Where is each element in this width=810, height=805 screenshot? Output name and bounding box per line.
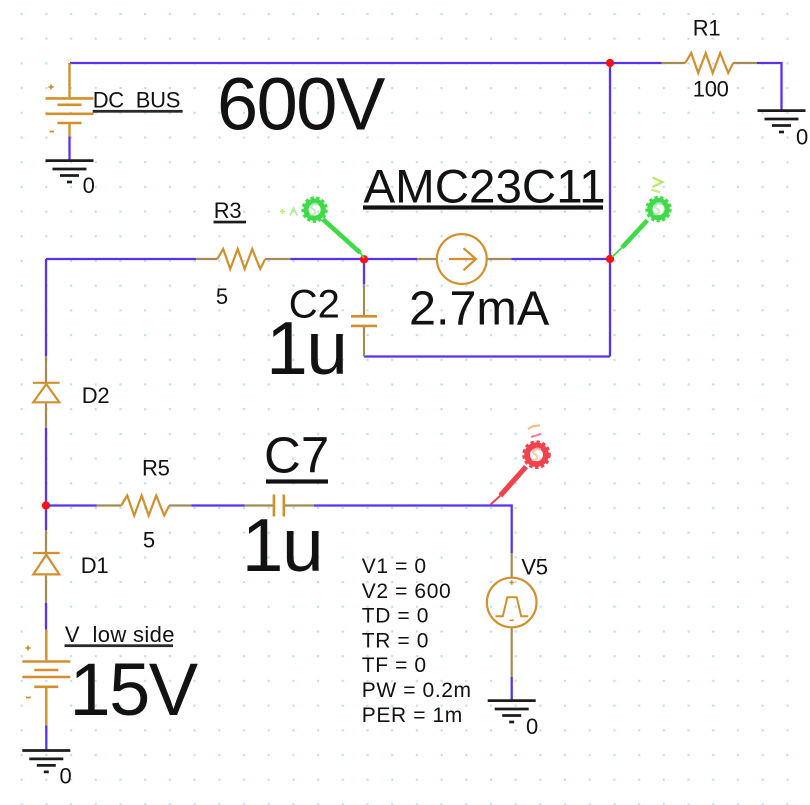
- wire V_low_side to ground: [45, 726, 47, 751]
- svg-text:R1: R1: [693, 15, 721, 40]
- svg-text:DC_BUS: DC_BUS: [93, 88, 180, 113]
- battery source V_low_side stems: [45, 630, 47, 726]
- resistor R1 body: [685, 53, 733, 73]
- battery source V DC_BUS plates: [46, 98, 94, 123]
- capacitor C7 pins: [245, 504, 315, 506]
- svg-text:5: 5: [143, 527, 155, 552]
- resistor R1 pins: [662, 62, 757, 64]
- svg-text:0: 0: [83, 173, 95, 198]
- voltage probe marker green 2: [612, 178, 670, 257]
- diode D2 pins: [45, 356, 47, 428]
- pulse source V5 plus mark: [510, 580, 514, 584]
- battery V_low_side minus mark: [26, 697, 31, 699]
- wire D1 to V_low_side: [45, 603, 47, 630]
- svg-text:V2 = 600: V2 = 600: [362, 580, 451, 603]
- svg-text:TR = 0: TR = 0: [362, 629, 429, 652]
- ground 0 under V_low_side: [22, 751, 70, 772]
- voltage probe marker green 1: [280, 198, 364, 258]
- resistor R5 body: [121, 496, 169, 516]
- svg-text:R5: R5: [142, 456, 170, 481]
- resistor R5 pins: [97, 504, 192, 506]
- junction dot at mid node: [606, 255, 614, 263]
- pulse source V5 waveform glyph: [496, 597, 529, 616]
- svg-text:15V: 15V: [70, 648, 199, 731]
- pulse source V5 minus mark: [510, 619, 514, 621]
- svg-text:1u: 1u: [242, 503, 322, 587]
- junction dot at top node: [606, 59, 614, 67]
- svg-text:V1 = 0: V1 = 0: [362, 555, 427, 578]
- diode D1 pins: [45, 530, 47, 603]
- pulse source V5 body: [487, 578, 537, 628]
- wire row3 junction to R5: [46, 504, 97, 506]
- svg-text:0: 0: [796, 125, 808, 150]
- wire D2 to D1 junction: [45, 428, 47, 530]
- ground 0 under V5: [488, 701, 536, 722]
- pulse source V5 pins: [511, 553, 513, 677]
- battery source V DC_BUS stems: [68, 63, 70, 137]
- diode D1 body: [33, 553, 60, 574]
- current source I1 pins: [417, 258, 512, 260]
- junction dot at D1-D2-R5 node: [42, 501, 50, 509]
- ground 0 under DC_BUS: [46, 161, 94, 182]
- wire row3 R5 to C7: [192, 504, 245, 506]
- capacitor C7 plates: [274, 495, 284, 517]
- wire V5 to ground: [511, 677, 513, 701]
- svg-text:C7: C7: [264, 426, 329, 483]
- svg-text:PW = 0.2m: PW = 0.2m: [362, 679, 472, 702]
- junction dot at C2 node: [360, 255, 368, 263]
- voltage probe marker red: [490, 425, 549, 504]
- capacitor C2 pins: [363, 284, 365, 356]
- svg-text:0: 0: [526, 714, 538, 739]
- svg-text:PER = 1m: PER = 1m: [362, 704, 463, 727]
- battery V_low_side plus mark: [26, 646, 31, 651]
- svg-text:5: 5: [216, 284, 228, 309]
- svg-text:TF = 0: TF = 0: [362, 654, 427, 677]
- wire C2 top stub: [363, 259, 365, 284]
- current source I1 body: [437, 234, 487, 284]
- battery source V_low_side plates: [22, 662, 70, 687]
- wire DC_BUS to ground: [68, 137, 70, 161]
- svg-text:100: 100: [693, 76, 729, 101]
- svg-text:V_low side: V_low side: [65, 622, 175, 647]
- svg-text:R3: R3: [214, 198, 242, 223]
- svg-text:1u: 1u: [266, 306, 346, 390]
- svg-text:D2: D2: [82, 383, 110, 408]
- ground 0 under R1: [758, 111, 806, 132]
- wire row2 I1 to node: [512, 258, 611, 260]
- current source I1 arrow: [449, 248, 476, 270]
- wire R1 right to ground corner: [757, 63, 782, 111]
- pulse source V5 parameters: [362, 555, 472, 727]
- resistor R3 body: [217, 249, 265, 269]
- svg-text:600V: 600V: [217, 62, 386, 145]
- resistor R3 pins: [196, 258, 291, 260]
- wire vertical node bus x=610: [609, 63, 611, 357]
- wire left vertical to D2: [45, 259, 47, 356]
- svg-text:D1: D1: [81, 553, 109, 578]
- diode D2 body: [33, 383, 60, 403]
- wire row3 C7 to V5 corner: [314, 506, 512, 554]
- svg-text:V5: V5: [521, 555, 547, 580]
- svg-text:0: 0: [60, 764, 72, 789]
- capacitor C2 plates: [351, 316, 377, 326]
- svg-text:AMC23C11: AMC23C11: [364, 160, 606, 213]
- svg-text:TD = 0: TD = 0: [362, 605, 429, 628]
- wire bottom of C2 to node bus: [364, 355, 610, 357]
- wire top bus from V_DC_BUS to R1: [70, 62, 662, 64]
- wire row2 R3 to I1: [291, 258, 418, 260]
- svg-text:2.7mA: 2.7mA: [409, 282, 550, 336]
- battery DC_BUS plus mark: [49, 85, 54, 90]
- battery DC_BUS minus mark: [50, 131, 55, 133]
- wire row2 left of R3: [46, 258, 196, 260]
